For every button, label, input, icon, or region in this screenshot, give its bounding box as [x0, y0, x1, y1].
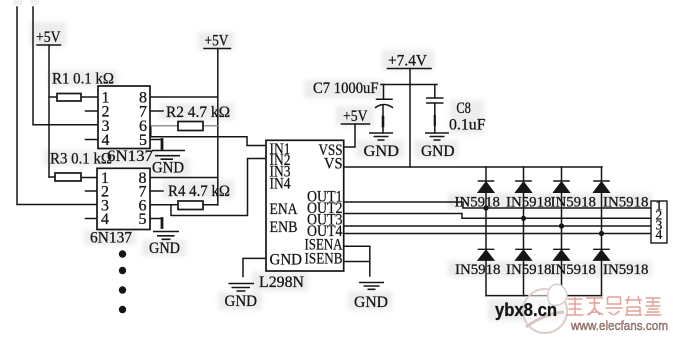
svg-text:5: 5 [139, 211, 147, 228]
svg-text:GND: GND [270, 252, 303, 269]
svg-text:+7.4V: +7.4V [388, 53, 427, 70]
svg-text:R1 0.1 kΩ: R1 0.1 kΩ [52, 71, 114, 88]
svg-text:www.elecfans.com: www.elecfans.com [570, 319, 668, 333]
svg-text:IN4: IN4 [270, 176, 291, 193]
svg-text:6N137: 6N137 [90, 230, 132, 247]
svg-text:ISENB: ISENB [305, 251, 343, 268]
svg-text:4: 4 [102, 132, 110, 149]
svg-text:4: 4 [101, 211, 109, 228]
svg-text:GND: GND [225, 293, 258, 310]
svg-text:+5V: +5V [36, 29, 61, 46]
svg-text:ENB: ENB [270, 219, 298, 236]
svg-text:IN5918: IN5918 [455, 262, 501, 278]
svg-text:GND: GND [421, 143, 455, 160]
svg-text:GND: GND [152, 160, 184, 177]
svg-text:ybx8.cn: ybx8.cn [495, 300, 557, 320]
svg-text:L298N: L298N [259, 274, 304, 291]
svg-text:R3 0.1 kΩ: R3 0.1 kΩ [50, 151, 112, 168]
svg-text:ENA: ENA [270, 201, 299, 218]
svg-text:IN5918: IN5918 [603, 195, 649, 211]
svg-text:C8: C8 [456, 100, 471, 117]
svg-text:IN5918: IN5918 [551, 262, 597, 278]
svg-text:R2 4.7 kΩ: R2 4.7 kΩ [166, 104, 230, 121]
svg-text:5: 5 [139, 132, 147, 149]
svg-text:IN5918: IN5918 [506, 195, 552, 211]
svg-text:GND: GND [354, 294, 388, 311]
svg-text:GND: GND [364, 143, 400, 160]
svg-text:6N137: 6N137 [107, 148, 153, 165]
svg-text:R4 4.7 kΩ: R4 4.7 kΩ [168, 183, 230, 200]
svg-text:IN5918: IN5918 [551, 195, 597, 211]
svg-text:C7 1000uF: C7 1000uF [313, 80, 379, 97]
svg-text:+5V: +5V [205, 33, 229, 50]
svg-text:+5V: +5V [343, 108, 368, 125]
svg-text:GND: GND [149, 240, 180, 257]
svg-text:IN5918: IN5918 [603, 262, 649, 278]
svg-text:IN5918: IN5918 [506, 262, 552, 278]
svg-text:4: 4 [656, 227, 663, 242]
svg-text:IN5918: IN5918 [455, 195, 501, 211]
svg-text:VS: VS [324, 156, 343, 173]
svg-text:0.1uF: 0.1uF [449, 117, 486, 134]
